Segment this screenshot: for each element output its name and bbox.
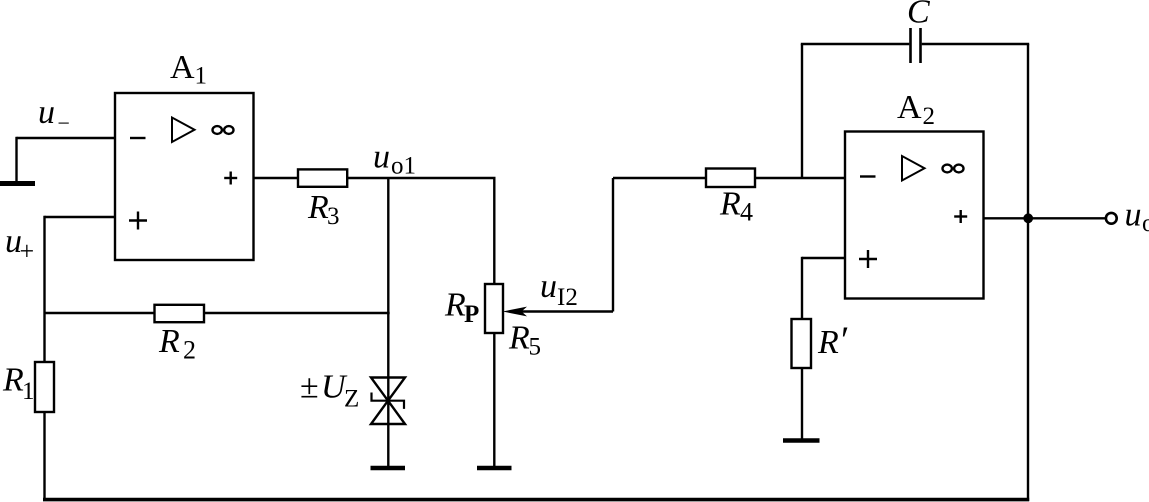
svg-text:+: + <box>20 237 35 266</box>
svg-text:R: R <box>307 189 329 226</box>
svg-text:o1: o1 <box>391 153 416 180</box>
svg-text:P: P <box>464 301 479 328</box>
svg-text:u: u <box>540 268 557 305</box>
svg-text:±: ± <box>300 369 319 406</box>
svg-text:Z: Z <box>344 386 359 413</box>
svg-text:5: 5 <box>529 334 542 361</box>
svg-text:u: u <box>373 139 390 176</box>
svg-text:1: 1 <box>195 62 208 89</box>
svg-text:A: A <box>170 49 195 86</box>
svg-text:1: 1 <box>22 378 35 405</box>
svg-text:′: ′ <box>841 320 849 362</box>
svg-text:R: R <box>158 323 180 360</box>
svg-text:u: u <box>1125 197 1142 234</box>
svg-text:−: − <box>58 111 70 136</box>
svg-text:R: R <box>508 320 530 357</box>
svg-text:R: R <box>719 186 741 223</box>
svg-text:u: u <box>38 94 55 131</box>
svg-text:2: 2 <box>183 336 196 365</box>
svg-text:o: o <box>1142 210 1149 237</box>
svg-text:R: R <box>817 324 839 361</box>
svg-text:R: R <box>444 287 466 324</box>
svg-text:C: C <box>907 0 930 30</box>
svg-text:3: 3 <box>327 203 340 230</box>
svg-text:I2: I2 <box>557 284 578 311</box>
svg-text:2: 2 <box>923 103 936 130</box>
svg-text:4: 4 <box>740 198 753 227</box>
svg-text:R: R <box>2 362 24 399</box>
svg-text:A: A <box>897 89 922 126</box>
